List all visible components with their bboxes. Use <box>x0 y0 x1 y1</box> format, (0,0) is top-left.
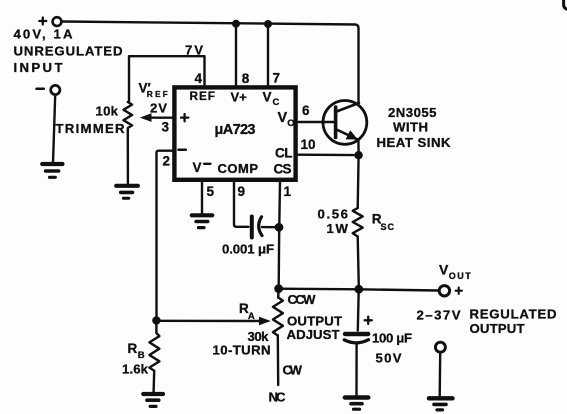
svg-text:CL: CL <box>275 146 293 161</box>
svg-text:ADJUST: ADJUST <box>287 327 340 342</box>
wire pin8 drop <box>235 24 237 87</box>
partial figure-frame corner top right <box>564 0 567 9</box>
svg-text:V+: V+ <box>231 90 248 105</box>
wire pin9 drop and over to capacitor <box>234 182 249 227</box>
svg-text:CCW: CCW <box>288 292 317 307</box>
svg-text:V: V <box>278 110 288 126</box>
svg-text:10k: 10k <box>96 104 119 119</box>
ground under pin5 <box>192 213 213 217</box>
wire emitter node down to Rsc <box>357 155 360 208</box>
svg-text:A: A <box>248 311 255 322</box>
wire RA wiper arrow shaft <box>156 320 261 323</box>
terminal + input <box>53 17 62 26</box>
resistor RB zigzag <box>149 333 159 371</box>
plus sign above 100uF cap <box>365 317 372 324</box>
svg-text:9: 9 <box>238 184 246 199</box>
svg-text:0.56: 0.56 <box>318 207 349 222</box>
svg-text:V: V <box>193 160 202 175</box>
wire pin5 drop to ground <box>201 182 203 214</box>
wire pin6 to transistor base <box>299 121 334 123</box>
svg-text:REF: REF <box>147 89 168 99</box>
svg-text:V: V <box>263 90 272 105</box>
ground under 100uF <box>345 395 369 399</box>
ground under RB <box>143 392 163 396</box>
svg-text:1: 1 <box>284 184 292 199</box>
trimmer 10k zigzag <box>124 102 133 132</box>
svg-text:50V: 50V <box>376 351 402 366</box>
svg-text:2V: 2V <box>150 101 167 116</box>
svg-text:WITH: WITH <box>393 119 428 134</box>
junction node top rail pin8 <box>232 20 240 28</box>
transistor Q1 circle <box>323 101 367 145</box>
wire pin10 to emitter node <box>299 153 356 156</box>
wire RB bottom to ground <box>152 371 155 392</box>
svg-text:COMP: COMP <box>218 161 259 176</box>
wire junction to RB top <box>155 321 157 334</box>
svg-text:7V: 7V <box>185 43 203 58</box>
arrowhead RA wiper (points right) <box>259 317 271 325</box>
svg-text:7: 7 <box>273 71 281 86</box>
junction node CS/output-adjust <box>274 284 283 293</box>
wire output minus terminal to ground <box>439 353 442 396</box>
svg-text:C: C <box>273 97 280 108</box>
capacitor C2 100uF top plate <box>345 332 368 336</box>
svg-text:HEAT SINK: HEAT SINK <box>377 135 451 150</box>
svg-text:4: 4 <box>195 71 203 86</box>
svg-text:SC: SC <box>381 222 395 232</box>
ground under minus input <box>42 162 62 166</box>
transistor base bar <box>334 107 338 138</box>
junction node emitter/CL <box>354 151 362 159</box>
wire emitter drop to node <box>357 140 360 153</box>
svg-text:2N3055: 2N3055 <box>388 105 437 120</box>
wire pin1 drop <box>278 182 281 225</box>
IC U1 uA723 box <box>174 87 295 179</box>
wire output node to 100uF cap <box>357 291 360 331</box>
junction node Rsc/output <box>354 285 363 294</box>
wire top rail from + input to collector <box>63 22 359 104</box>
svg-text:40V, 1A: 40V, 1A <box>14 27 73 42</box>
transistor collector diagonal <box>337 103 359 112</box>
svg-text:B: B <box>138 350 145 361</box>
svg-text:10: 10 <box>301 137 316 152</box>
svg-text:V: V <box>439 262 449 278</box>
wire REF pin4 to 7V corner and down to trimmer <box>129 56 205 102</box>
svg-text:0.001 μF: 0.001 μF <box>222 242 274 257</box>
capacitor C1 0.001uF left plate <box>250 217 254 238</box>
svg-text:5: 5 <box>207 184 215 199</box>
terminal - input <box>51 85 60 94</box>
plus sign at Vout terminal <box>456 288 462 294</box>
svg-text:NC: NC <box>269 390 286 405</box>
ground under output minus <box>429 396 453 400</box>
svg-text:2–37V: 2–37V <box>417 308 461 323</box>
svg-text:UNREGULATED: UNREGULATED <box>14 44 123 59</box>
capacitor C1 0.001uF right curved plate <box>259 217 262 236</box>
wire pin1 node to output-adjust node <box>278 229 281 287</box>
svg-text:10-TURN: 10-TURN <box>213 343 271 358</box>
junction node pin2/RB/RA-wiper <box>152 316 160 324</box>
svg-text:REGULATED: REGULATED <box>470 307 557 322</box>
capacitor C2 100uF curved bottom plate <box>344 340 368 343</box>
svg-text:1W: 1W <box>327 221 349 236</box>
svg-text:O: O <box>287 118 294 129</box>
svg-text:OUT: OUT <box>449 271 472 281</box>
junction node cap/pin1 <box>275 223 284 232</box>
svg-text:μA723: μA723 <box>215 122 256 138</box>
svg-text:INPUT: INPUT <box>14 60 63 75</box>
wire cap right plate to pin1 node <box>262 226 276 228</box>
svg-text:TRIMMER: TRIMMER <box>56 121 125 136</box>
wire 100uF cap to ground <box>355 344 358 396</box>
wire Rsc bottom to output node <box>358 237 359 287</box>
resistor Rsc zigzag <box>353 208 363 237</box>
wire node to RA top <box>277 290 280 298</box>
minus sign at input terminal <box>37 87 44 90</box>
plus sign inside IC (pin3) <box>181 114 188 121</box>
svg-text:2: 2 <box>163 154 171 169</box>
ground under trimmer <box>116 184 138 188</box>
wire pin7 drop <box>267 24 269 87</box>
svg-text:R: R <box>128 341 138 356</box>
potentiometer RA zigzag <box>273 298 283 336</box>
plus sign at input terminal <box>39 18 46 25</box>
wire pin2 left and long drop <box>157 151 173 319</box>
svg-text:CS: CS <box>274 162 292 177</box>
svg-text:OUTPUT: OUTPUT <box>470 321 525 336</box>
superscript minus of V- label <box>204 163 211 165</box>
svg-text:3: 3 <box>162 120 170 135</box>
svg-text:REF: REF <box>190 89 216 103</box>
wire trimmer to ground <box>127 132 129 185</box>
arrowhead trimmer wiper (points left) <box>140 113 152 122</box>
terminal Vout + <box>439 286 449 296</box>
transistor emitter diagonal <box>337 130 358 140</box>
junction node top rail pin7 <box>264 20 272 28</box>
arrowhead transistor emitter <box>346 130 358 139</box>
svg-text:CW: CW <box>283 363 303 378</box>
wire output rail to Vout terminal <box>279 289 438 291</box>
svg-text:1.6k: 1.6k <box>122 362 149 377</box>
minus sign inside IC (pin2) <box>179 149 186 152</box>
svg-text:8: 8 <box>242 71 250 86</box>
wire minus input terminal to ground <box>53 95 55 163</box>
wire RA bottom NC stub <box>277 336 280 386</box>
wire pin3 to trimmer wiper <box>150 116 173 118</box>
svg-text:100 μF: 100 μF <box>372 331 412 346</box>
svg-text:6: 6 <box>302 103 310 118</box>
terminal output - <box>435 342 445 352</box>
